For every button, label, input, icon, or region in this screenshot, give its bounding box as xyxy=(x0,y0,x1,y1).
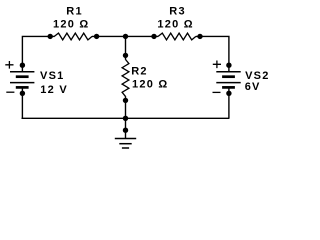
ground bar 1 xyxy=(115,138,136,140)
VS2 plus sign xyxy=(213,61,221,69)
VS1 minus sign xyxy=(6,91,14,93)
wire: VS2 negative terminal down to bottom rail xyxy=(228,87,230,118)
node B: bottom junction dot xyxy=(123,116,128,121)
battery VS1 plate 3 long xyxy=(10,82,34,84)
VS2 minus sign xyxy=(213,91,221,93)
svg-text:R3: R3 xyxy=(169,6,186,18)
battery VS2 plate 1 long xyxy=(216,71,240,73)
ground bar 2 xyxy=(119,143,131,145)
svg-text:R2: R2 xyxy=(131,66,148,78)
node dot VS1 negative pin xyxy=(20,91,25,96)
node dot R2 pin 1 xyxy=(123,53,128,58)
node dot ground pin xyxy=(123,128,128,133)
wire: ground stem xyxy=(125,118,127,138)
battery VS1 plate 1 long xyxy=(10,71,34,73)
node dot R3 pin 2 xyxy=(197,34,202,39)
battery VS2 plate 2 short thick xyxy=(222,75,235,78)
svg-text:VS1: VS1 xyxy=(40,70,65,82)
svg-text:120 Ω: 120 Ω xyxy=(157,19,193,31)
svg-text:R1: R1 xyxy=(66,6,83,18)
node dot R1 pin 1 xyxy=(48,34,53,39)
node dot R2 pin 2 xyxy=(123,98,128,103)
svg-text:12 V: 12 V xyxy=(40,84,68,96)
node dot VS1 positive pin xyxy=(20,62,25,67)
wire: VS1 positive terminal up and across to R1 pin 1 xyxy=(22,36,54,71)
battery VS2 plate 4 short thick xyxy=(222,86,235,89)
svg-text:120 Ω: 120 Ω xyxy=(132,78,168,90)
battery VS1 plate 4 short thick xyxy=(16,86,29,89)
svg-text:6V: 6V xyxy=(245,81,261,93)
ground bar 3 xyxy=(122,147,129,149)
node A: top junction dot xyxy=(123,34,128,39)
wire: VS1 negative terminal down to bottom rail xyxy=(21,87,23,118)
wire: middle branch from top junction down to R2 pin 1 xyxy=(125,36,127,60)
node dot VS2 positive pin xyxy=(226,62,231,67)
battery VS1 plate 2 short thick xyxy=(16,75,29,78)
node dot R3 pin 1 xyxy=(151,34,156,39)
VS1 plus sign xyxy=(5,61,13,69)
wire: R1 pin 2 to R3 pin 1 across top junction xyxy=(92,35,158,37)
node dot VS2 negative pin xyxy=(226,91,231,96)
resistor R1 xyxy=(54,33,92,40)
svg-text:120 Ω: 120 Ω xyxy=(53,19,89,31)
wire: bottom rail xyxy=(22,117,230,119)
svg-text:VS2: VS2 xyxy=(245,70,270,82)
resistor R3 xyxy=(158,33,196,40)
battery VS2 plate 3 long xyxy=(216,82,240,84)
wire: R3 pin 2 across and down to VS2 positive terminal xyxy=(196,36,229,71)
wire: R2 pin 2 down to bottom junction xyxy=(125,96,127,118)
resistor R2 xyxy=(122,60,129,97)
node dot R1 pin 2 xyxy=(94,34,99,39)
